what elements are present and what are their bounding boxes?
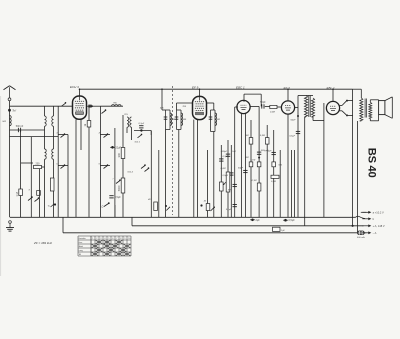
fuse 0,6A bbox=[357, 231, 365, 239]
label R9 bbox=[245, 135, 248, 137]
svg-text:5000: 5000 bbox=[117, 185, 121, 191]
capacitor C14 bbox=[296, 131, 300, 133]
junction C18 bbox=[258, 157, 260, 159]
T3 core bbox=[309, 96, 311, 118]
wire V1 right stub bbox=[87, 105, 101, 107]
wire switch column A bbox=[57, 106, 59, 217]
wire HT rail bbox=[80, 88, 353, 90]
T3 secondary winding bbox=[311, 98, 314, 117]
switch contact S13 bbox=[342, 111, 348, 117]
dashed tuning gang link bbox=[172, 86, 174, 215]
capacitor C7 bbox=[229, 173, 233, 175]
svg-text:6: 6 bbox=[112, 238, 113, 240]
label C12 bbox=[238, 167, 244, 169]
capacitor C4 bbox=[109, 196, 121, 199]
terminal +A 148V bbox=[352, 224, 385, 228]
padder capacitor C2 bbox=[34, 163, 42, 169]
IF transformer T1 primary bbox=[164, 110, 170, 130]
switch contact S5 bbox=[102, 109, 107, 113]
coupling capacitor C8 50pF bbox=[260, 101, 266, 108]
label switch 8 bbox=[29, 190, 31, 192]
pilot lamp arrow bbox=[165, 205, 170, 211]
resistor R15 0,2M bbox=[271, 175, 279, 178]
capacitor C6 bbox=[219, 159, 223, 161]
wire S3 stub bbox=[58, 134, 68, 136]
svg-text:3: 3 bbox=[100, 238, 101, 240]
terminal -A bbox=[362, 231, 376, 235]
wire column bbox=[266, 125, 268, 217]
label value bbox=[232, 151, 236, 153]
wire to L3 bbox=[53, 106, 55, 116]
wire column bbox=[150, 131, 152, 218]
AF pentode V4 bbox=[281, 101, 294, 114]
supply line -A bbox=[63, 232, 357, 234]
svg-text:600 mA: 600 mA bbox=[357, 236, 365, 239]
resistor R4 5000 bbox=[117, 178, 125, 193]
junction bbox=[200, 204, 202, 206]
wire V3 diode lead bbox=[240, 114, 242, 218]
svg-text:EF 9: EF 9 bbox=[192, 86, 199, 90]
wire bbox=[378, 115, 380, 121]
resistor R12 bbox=[257, 183, 261, 191]
label L6 bbox=[124, 114, 128, 116]
wire elbow bbox=[313, 120, 324, 122]
svg-text:50pF: 50pF bbox=[260, 101, 266, 104]
switch contact S10b bbox=[145, 167, 150, 171]
dial lamp D bbox=[102, 202, 110, 208]
loudspeaker LS bbox=[379, 97, 393, 118]
label IF transformer T1 secondary bbox=[183, 119, 187, 121]
terminal b bbox=[356, 216, 375, 221]
svg-text:500pF: 500pF bbox=[221, 151, 228, 153]
label switch 7 bbox=[112, 179, 114, 181]
label switch 4 bbox=[99, 132, 101, 135]
wire to L2 bbox=[44, 106, 46, 116]
wire V1 lead short bbox=[80, 119, 82, 150]
T3 primary winding bbox=[304, 96, 307, 118]
wire T3 primary return bbox=[304, 117, 306, 226]
svg-text:2: 2 bbox=[96, 238, 97, 240]
oscillator coil L5 bbox=[52, 149, 54, 159]
switch contact S9 bbox=[138, 134, 143, 138]
oscillator trimmer resistor bbox=[50, 178, 54, 191]
volume potentiometer P1 bbox=[223, 170, 230, 194]
output tube V5 EBL1 bbox=[326, 101, 339, 114]
wire bus tap bbox=[131, 217, 133, 226]
wire L4 down bbox=[44, 159, 46, 217]
capacitor C12 50pF bbox=[243, 170, 247, 172]
wire bbox=[297, 96, 299, 108]
svg-text:2M: 2M bbox=[244, 157, 248, 159]
wire T1 left down bbox=[165, 130, 167, 218]
svg-text:1 M: 1 M bbox=[15, 192, 19, 196]
label Sek1 bbox=[135, 141, 141, 143]
wire T2 down bbox=[213, 132, 215, 218]
wire padder branch bbox=[39, 167, 41, 217]
label R13 bbox=[260, 135, 265, 137]
duodiode-triode V3 EBC1 bbox=[237, 100, 250, 113]
wire T1 sec top bbox=[176, 103, 178, 110]
resistor R7 bbox=[206, 204, 210, 211]
junction rail IF1 bbox=[161, 88, 163, 90]
coil of IF transformer T2 bbox=[215, 113, 217, 125]
wire S4 stub bbox=[58, 165, 68, 167]
svg-text:2µF: 2µF bbox=[281, 230, 285, 232]
T4 primary bbox=[360, 98, 363, 121]
resistor R5 bbox=[220, 182, 224, 191]
svg-text:7: 7 bbox=[116, 238, 117, 240]
label tube V4 bbox=[284, 86, 291, 90]
label value bbox=[267, 151, 273, 153]
wire switch column B bbox=[67, 135, 69, 218]
label value bbox=[244, 157, 248, 159]
wire L6 down bbox=[126, 127, 128, 133]
T4 secondary bbox=[369, 102, 372, 118]
wire coupling bbox=[10, 129, 45, 131]
svg-text:1: 1 bbox=[92, 238, 93, 240]
svg-text:+ A, 148 V: + A, 148 V bbox=[373, 224, 385, 228]
wire speaker return bbox=[370, 120, 378, 122]
switch contact S12 bbox=[342, 100, 348, 106]
junction rail V1 bbox=[79, 88, 81, 90]
wire branch bbox=[30, 137, 32, 218]
label C18 bbox=[261, 150, 269, 152]
wire lower coupling bbox=[10, 136, 59, 138]
resistor R11 bbox=[257, 162, 261, 167]
label IF transformer T2 bbox=[217, 119, 221, 121]
wire V2 cathode down bbox=[193, 120, 195, 218]
svg-text:8: 8 bbox=[120, 238, 121, 240]
svg-text:0,3M: 0,3M bbox=[260, 135, 265, 137]
wire bbox=[260, 94, 262, 106]
label C11 bbox=[226, 209, 232, 211]
resistor R10 bbox=[249, 162, 253, 167]
label choke bbox=[113, 102, 117, 104]
wire to speaker bbox=[370, 99, 378, 101]
label switch 3 bbox=[56, 133, 58, 135]
svg-text:a +10,2 V: a +10,2 V bbox=[373, 210, 384, 214]
resistor R3 300 bbox=[117, 148, 125, 159]
electrolytic C16 bbox=[283, 219, 295, 222]
wire antenna down-lead bbox=[9, 101, 11, 217]
terminal a +10,2 V bbox=[361, 210, 384, 214]
switch contact S1b bbox=[35, 197, 40, 201]
wire volume pot column bbox=[227, 140, 229, 217]
switch contact S4 bbox=[61, 164, 66, 168]
svg-text:1M: 1M bbox=[245, 135, 248, 137]
junction rail V4 bbox=[287, 88, 289, 90]
T3 core bbox=[308, 96, 310, 118]
wire V3 anode out bbox=[250, 105, 259, 107]
label value bbox=[204, 201, 207, 203]
svg-text:1nF: 1nF bbox=[232, 151, 236, 153]
note IF frequency bbox=[33, 241, 53, 245]
wire AVC column bbox=[114, 128, 116, 217]
wire V5 top bbox=[332, 89, 334, 101]
capacitor C13 bbox=[272, 152, 276, 154]
T4 core line bbox=[366, 99, 368, 118]
wire V5 to S13 bbox=[340, 110, 342, 112]
junction V1 grid right bbox=[91, 105, 93, 107]
RF choke 765 bbox=[112, 105, 122, 107]
svg-text:0,5µF: 0,5µF bbox=[289, 219, 296, 222]
svg-text:EF 3: EF 3 bbox=[284, 86, 291, 90]
antenna coil L1 bbox=[10, 116, 12, 126]
svg-text:9: 9 bbox=[124, 238, 125, 240]
node Ta bbox=[8, 109, 11, 112]
junction rail V5 bbox=[332, 88, 334, 90]
label switch 6 bbox=[99, 164, 101, 166]
label value bbox=[279, 165, 283, 167]
wire rail end bbox=[353, 88, 362, 90]
wire V4 cathode down bbox=[287, 114, 289, 217]
svg-text:5nF: 5nF bbox=[228, 190, 232, 192]
svg-text:– A: – A bbox=[373, 231, 377, 235]
svg-text:22µF: 22µF bbox=[116, 146, 122, 149]
wire V1 anode to HT rail bbox=[79, 89, 81, 96]
svg-text:5: 5 bbox=[108, 238, 109, 240]
wire V2 anode out bbox=[207, 102, 214, 104]
capacitor C10 5nF bbox=[233, 184, 237, 186]
svg-text:50pF: 50pF bbox=[267, 151, 273, 153]
grid resistor R8 bbox=[270, 105, 277, 108]
wire bbox=[378, 99, 380, 102]
switch contact S8 bbox=[116, 179, 121, 183]
RF transformer primary L2 bbox=[45, 116, 47, 126]
svg-text:4: 4 bbox=[104, 238, 105, 240]
wire L7 down bbox=[131, 127, 133, 140]
svg-text:0,5µF: 0,5µF bbox=[115, 196, 122, 199]
wire T4 to rail bbox=[360, 89, 362, 98]
svg-text:0,1µF: 0,1µF bbox=[139, 123, 145, 125]
resistor R1 1M bbox=[15, 189, 23, 197]
wire switch column C bbox=[99, 106, 101, 217]
wire T3 feed bbox=[298, 95, 306, 97]
label value bbox=[223, 175, 229, 177]
label R8 bbox=[270, 112, 275, 114]
capacitor C9 500pF bbox=[226, 154, 230, 156]
wire V5 to S12 bbox=[340, 105, 342, 107]
junction rail V2 bbox=[199, 88, 201, 90]
wire oscillator column bbox=[122, 115, 124, 217]
capacitor C1 500pF bbox=[16, 125, 24, 132]
wire V3 top lead bbox=[243, 94, 245, 102]
wire L2-L4 bbox=[44, 126, 46, 149]
svg-text:Ta f: Ta f bbox=[12, 110, 16, 113]
svg-text:2µF: 2µF bbox=[256, 219, 261, 222]
junction bbox=[297, 115, 299, 117]
wire bbox=[265, 105, 270, 107]
wire S6 stub bbox=[100, 134, 110, 136]
label tube V3 bbox=[236, 85, 245, 89]
capacitor C5 bbox=[139, 126, 143, 128]
label tube V5 bbox=[327, 86, 335, 90]
oscillator padding coil L6 bbox=[127, 117, 129, 127]
label value bbox=[160, 107, 164, 110]
wire bbox=[348, 114, 353, 116]
svg-text:0,2M: 0,2M bbox=[270, 112, 275, 114]
resistor R9 1M bbox=[249, 138, 253, 145]
switch contact S11 bbox=[211, 206, 216, 211]
wire bus tap left bbox=[62, 217, 64, 233]
wire column bbox=[293, 150, 295, 217]
wire anode load down bbox=[297, 108, 299, 218]
svg-text:0,1M: 0,1M bbox=[250, 160, 255, 162]
wire column bbox=[207, 150, 209, 217]
wire T3 to bus bbox=[323, 103, 325, 217]
svg-text:0,1M: 0,1M bbox=[252, 180, 257, 182]
wire grid feed bbox=[10, 105, 73, 107]
svg-text:D: D bbox=[102, 205, 104, 209]
label Sek2 bbox=[127, 172, 133, 174]
wire bbox=[369, 100, 371, 103]
svg-text:ZF = 469 kHz: ZF = 469 kHz bbox=[33, 241, 53, 245]
wire V2 suppressor down bbox=[197, 120, 199, 218]
wire heater return down bbox=[357, 121, 359, 233]
svg-text:Kontakte: Kontakte bbox=[79, 237, 86, 240]
oscillator padding coil L7 bbox=[130, 117, 132, 127]
node Ta2 bbox=[48, 203, 57, 207]
wire V1 screen branch bbox=[88, 106, 90, 217]
wire V1 cathode down bbox=[75, 119, 77, 217]
wire column bbox=[291, 150, 293, 217]
wire Sek1 bus bbox=[134, 130, 151, 132]
wire V3 cathode lead bbox=[244, 114, 246, 218]
switch contact S3 bbox=[61, 133, 66, 137]
wire corner bbox=[150, 131, 152, 136]
svg-text:Lang: Lang bbox=[79, 250, 83, 252]
svg-text:200: 200 bbox=[36, 163, 41, 166]
svg-text:0,2M: 0,2M bbox=[221, 168, 226, 170]
label switch 5 bbox=[56, 164, 58, 166]
wire branch elbow bbox=[21, 162, 33, 164]
wire column bbox=[258, 106, 260, 217]
switch contact S1 bbox=[28, 196, 33, 200]
wire column bbox=[220, 145, 222, 217]
wire column bbox=[234, 107, 236, 217]
svg-text:500 pF: 500 pF bbox=[16, 125, 24, 128]
capacitor C11 bbox=[233, 205, 237, 207]
wire to RF choke bbox=[100, 105, 123, 107]
wire column bbox=[279, 150, 281, 217]
svg-text:ECH 3: ECH 3 bbox=[70, 85, 79, 89]
switch contact S6 bbox=[104, 133, 109, 137]
wire column bbox=[273, 130, 275, 217]
svg-text:50pF: 50pF bbox=[291, 120, 297, 122]
wire V3 anode top route bbox=[244, 93, 261, 95]
wire S7 stub bbox=[100, 165, 110, 167]
capacitor C17 2uF bbox=[273, 227, 286, 232]
label C9 bbox=[221, 151, 228, 153]
label IF transformer T1 primary bbox=[172, 119, 176, 121]
label value bbox=[182, 106, 186, 108]
resistor R6 bbox=[154, 202, 158, 211]
wire V4 top lead bbox=[287, 89, 289, 101]
label value bbox=[148, 198, 151, 201]
label C5 bbox=[139, 123, 145, 125]
label Ta bbox=[12, 110, 16, 113]
label R12 bbox=[252, 180, 257, 182]
svg-text:Sek.2: Sek.2 bbox=[127, 172, 133, 174]
electrolytic C15 2uF bbox=[250, 219, 260, 222]
switch contact S2 bbox=[62, 102, 67, 106]
wire L3-L5 bbox=[53, 126, 55, 149]
wire HT feed down bbox=[352, 89, 354, 226]
svg-text:0,5µF: 0,5µF bbox=[289, 136, 295, 138]
switch contact S10 bbox=[141, 164, 146, 168]
wire to V4 grid bbox=[277, 106, 281, 108]
RF transformer secondary L3 bbox=[52, 116, 54, 126]
wire C4 down bbox=[114, 205, 116, 217]
label C6 bbox=[223, 156, 229, 158]
wire bbox=[369, 118, 371, 121]
wire to T1 top bbox=[162, 109, 166, 111]
svg-text:Sek.1: Sek.1 bbox=[135, 141, 141, 143]
label P1 bbox=[221, 168, 226, 170]
wire to T2 bbox=[213, 103, 215, 110]
triode-hexode V1 ECH3 bbox=[73, 96, 87, 119]
wire T1 right down bbox=[178, 130, 180, 218]
svg-text:10: 10 bbox=[128, 238, 130, 240]
wire T3 sec down bbox=[312, 117, 314, 121]
resistor R14 50k bbox=[272, 162, 276, 167]
scan streak (edge artifact) bbox=[0, 96, 1, 276]
svg-text:0,5µF: 0,5µF bbox=[223, 175, 229, 177]
junction Sek1 bbox=[140, 129, 142, 131]
svg-text:300: 300 bbox=[117, 152, 121, 157]
svg-text:Mittel: Mittel bbox=[79, 245, 84, 248]
label C10 bbox=[228, 190, 232, 192]
switch contact S7 bbox=[104, 164, 109, 168]
wire column bbox=[158, 150, 160, 217]
electrolytic C3 22uF bbox=[110, 146, 121, 149]
capacitor C18 500pF bbox=[257, 152, 261, 154]
label R15 bbox=[271, 181, 276, 183]
wire column bbox=[250, 120, 252, 217]
label value bbox=[291, 120, 297, 122]
label tube V2 bbox=[192, 86, 199, 90]
svg-text:BS 40: BS 40 bbox=[365, 148, 377, 178]
label tube V1 bbox=[70, 85, 79, 89]
wire V2 anode to rail bbox=[199, 89, 201, 96]
wire V3 left to C10 column bbox=[235, 106, 238, 108]
antenna bbox=[4, 86, 16, 101]
chassis bus bbox=[10, 216, 356, 218]
wire to V2 grid bbox=[177, 102, 194, 104]
wire column bbox=[230, 145, 232, 217]
supply line +A bbox=[132, 225, 364, 227]
wire T3 top bbox=[306, 95, 313, 97]
IF transformer T2 bbox=[209, 110, 215, 132]
label L1 value bbox=[2, 121, 6, 123]
svg-text:Kurz: Kurz bbox=[79, 242, 83, 244]
resistor R2 bbox=[83, 121, 91, 128]
T4 core line bbox=[364, 99, 366, 118]
wire V4 anode out bbox=[295, 107, 299, 109]
label C14 bbox=[289, 136, 295, 138]
wire C2 to L4 bbox=[42, 166, 45, 168]
wire rail drop to IF1 bbox=[161, 89, 163, 110]
svg-text:0,2M: 0,2M bbox=[271, 181, 276, 183]
svg-text:EBC 1: EBC 1 bbox=[236, 85, 245, 89]
band switch table bbox=[78, 236, 131, 256]
ground bbox=[6, 221, 14, 231]
svg-text:50pF: 50pF bbox=[238, 167, 244, 169]
coil of IF transformer T1 secondary bbox=[181, 113, 183, 125]
svg-text:0,1µF: 0,1µF bbox=[226, 209, 232, 211]
resistor R13 bbox=[265, 138, 269, 145]
svg-text:EBL 1: EBL 1 bbox=[327, 86, 335, 90]
